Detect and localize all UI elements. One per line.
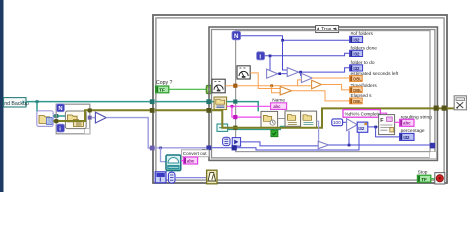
- svg-text:abc: abc: [403, 121, 411, 126]
- iteration terminal i: [57, 124, 65, 132]
- wire: estimated seconds left: [312, 77, 350, 79]
- string terminal convert out: [183, 157, 197, 164]
- wire: resulting string: [395, 121, 400, 123]
- format string constant: [343, 110, 381, 118]
- wire: result to while loop: [106, 118, 155, 148]
- tunnel: [233, 100, 237, 104]
- tunnel: [88, 108, 92, 112]
- multiply triangle: [312, 80, 322, 89]
- divide triangle 3: [280, 87, 291, 95]
- label Convert out: [181, 150, 209, 157]
- date/time VI icon: [261, 111, 278, 127]
- numeric constant capsule: [168, 172, 175, 183]
- while loop: [153, 15, 447, 183]
- wire: name string: [227, 105, 271, 107]
- boolean constant true: [271, 130, 278, 137]
- for loop 1: [236, 31, 430, 152]
- loop condition terminal: [435, 173, 445, 184]
- to I32 conversion: [357, 122, 368, 132]
- svg-text:abc: abc: [187, 158, 195, 163]
- divide triangle 2: [301, 73, 312, 82]
- svg-text:I32: I32: [403, 135, 410, 140]
- svg-text:DBL: DBL: [353, 88, 362, 93]
- tunnel: [232, 145, 237, 150]
- svg-text:TF: TF: [159, 87, 165, 92]
- increment triangle 2: [318, 141, 328, 148]
- svg-text:DBL: DBL: [353, 99, 362, 104]
- junction: [159, 147, 162, 150]
- svg-text:abc: abc: [273, 104, 281, 109]
- match pattern VI icon: [285, 111, 301, 126]
- tick count VI A: [237, 66, 250, 79]
- wire: branch to convert vi: [161, 148, 167, 162]
- case selector label True: [316, 26, 339, 34]
- wire: path into for loop 2: [53, 115, 66, 117]
- string terminal resulting string: [400, 119, 414, 126]
- indicator terminal I32: [350, 50, 363, 56]
- svg-text:%d%% Complete: %d%% Complete: [345, 111, 381, 116]
- junction: [269, 55, 272, 58]
- count terminal N: [232, 31, 241, 40]
- tunnel: loop2 output: [88, 116, 92, 120]
- convert VI icon: [166, 155, 181, 171]
- string terminal Name: [271, 103, 287, 110]
- case resize notch: [429, 152, 436, 159]
- wire: wait ms: [175, 177, 207, 179]
- indicator terminal DBL: [350, 76, 363, 82]
- boolean terminal stop: [417, 175, 430, 182]
- wire: lower blue P: [241, 142, 319, 146]
- while iteration terminal: [155, 172, 166, 184]
- tunnel: percentage out: [430, 143, 435, 149]
- resize notch: [85, 129, 90, 134]
- list folder VI icon: [37, 111, 53, 127]
- wait until next ms multiple VI: [207, 170, 217, 184]
- wire: error out of while: [433, 107, 454, 109]
- svg-text:DBL: DBL: [353, 77, 362, 82]
- tunnel: path into case: [206, 99, 211, 104]
- indicator terminal DBL: [350, 98, 363, 104]
- tunnel: array into case: [206, 145, 211, 150]
- path constant: [217, 124, 228, 131]
- indicator terminal DBL: [350, 87, 363, 93]
- wire: empty path: [228, 127, 285, 130]
- path control "nd Backup": [4, 98, 29, 107]
- tunnel: array in: [150, 146, 155, 151]
- wire: branch up to divide 2: [298, 80, 302, 86]
- build path VI icon: [301, 111, 317, 127]
- wire: path inside while: [155, 101, 211, 103]
- indicator terminal percentage: [400, 133, 414, 140]
- count terminal N: [57, 104, 65, 112]
- case selector terminal: [206, 85, 211, 94]
- wire: path from control: [26, 101, 152, 103]
- junction: [374, 126, 377, 129]
- svg-text:I32: I32: [353, 38, 360, 43]
- svg-text:i: i: [159, 177, 161, 184]
- report VI icon: [454, 96, 466, 110]
- svg-text:Copy ?: Copy ?: [156, 80, 173, 86]
- wire: boolean to selector: [169, 88, 206, 90]
- tunnel: path in: [150, 99, 155, 104]
- tunnel: error in: [150, 108, 155, 113]
- tunnel: [54, 119, 58, 123]
- wire: i branch down: [269, 56, 271, 71]
- wire: convert string: [181, 160, 184, 162]
- wire: F output down to quotient: [317, 121, 319, 142]
- for loop 2: [56, 104, 90, 134]
- wire: error out of list folder: [53, 110, 152, 121]
- comparison triangle: [95, 112, 106, 123]
- numeric constant 100: [332, 119, 343, 126]
- format into string VI: [379, 115, 395, 135]
- wire: to subtract: [278, 73, 288, 75]
- boolean terminal Copy ?: [156, 86, 169, 93]
- window edge stripe: [0, 0, 4, 192]
- increment triangle: [267, 69, 278, 78]
- wire: lower blue Q: [212, 132, 359, 150]
- wire: format string to format VI: [380, 113, 386, 115]
- tunnel: error into case: [206, 108, 211, 113]
- svg-text:I32: I32: [358, 126, 365, 131]
- wire: name branch down: [232, 106, 261, 117]
- wire: to percentage terminal: [376, 127, 400, 137]
- junction: [231, 105, 234, 108]
- wire: to folder to do: [299, 68, 350, 72]
- svg-text:N: N: [58, 106, 62, 112]
- copy file icon: [65, 111, 86, 129]
- wire: N to #of folders: [241, 36, 350, 41]
- tunnel: error while right: [442, 106, 447, 111]
- svg-text:nd Backup: nd Backup: [4, 101, 29, 107]
- wire: i to folders done: [265, 53, 350, 56]
- svg-text:Stop: Stop: [418, 169, 428, 175]
- wire: error inside while: [155, 109, 211, 111]
- tunnel: [233, 115, 237, 119]
- wire: stop to condition: [431, 178, 435, 180]
- tunnel: error case right: [434, 106, 439, 111]
- iteration terminal i: [257, 52, 265, 61]
- tick count VI B: [212, 79, 225, 93]
- svg-text:Convert out: Convert out: [183, 151, 207, 156]
- tunnel: [233, 126, 237, 130]
- wire: to percentage tunnel: [329, 144, 432, 146]
- multiply triangle 2: [347, 119, 358, 131]
- lower feedback icon a: [223, 137, 230, 145]
- junction: [270, 84, 273, 87]
- wire: branch to divide3 lower input: [272, 86, 281, 93]
- wire: path to strip path: [212, 101, 214, 103]
- indicator terminal I32: [350, 65, 363, 71]
- tunnel: [54, 114, 58, 118]
- wire: array out: [92, 117, 95, 119]
- wire: to Elapsed s: [292, 91, 350, 101]
- junction: [348, 144, 351, 147]
- wire: array inside while: [155, 147, 211, 149]
- svg-text:N: N: [234, 33, 239, 40]
- wire: up to multiply: [348, 131, 350, 145]
- lower feedback icon b: [232, 138, 240, 147]
- wire: N down to divide: [283, 40, 288, 70]
- wire: tick B across: [225, 85, 311, 87]
- case structure: [209, 27, 437, 160]
- wire: tick A down: [250, 73, 280, 89]
- junction: [281, 39, 284, 42]
- wire: icons connect: [278, 118, 285, 120]
- tunnel: [233, 84, 237, 88]
- svg-text:100: 100: [333, 120, 341, 125]
- strip path icon: [214, 97, 227, 110]
- wire: error chain: [212, 108, 433, 127]
- wire: branch to divide 2: [300, 72, 303, 75]
- wire: path branch down: [36, 102, 38, 112]
- subtract triangle: [287, 68, 298, 77]
- svg-text:I32: I32: [353, 52, 360, 57]
- wire: 100 to multiply: [343, 121, 347, 123]
- wire: I32 to format: [368, 126, 379, 128]
- svg-text:TF: TF: [421, 177, 427, 182]
- indicator terminal I32: [350, 36, 363, 42]
- junction: [278, 72, 281, 75]
- wire: path name out: [227, 102, 259, 112]
- anchor marks outside case: [202, 150, 205, 155]
- svg-text:I32: I32: [353, 66, 360, 71]
- junction: [299, 71, 302, 74]
- wire: to Time folders: [321, 85, 350, 90]
- junction: [36, 100, 39, 103]
